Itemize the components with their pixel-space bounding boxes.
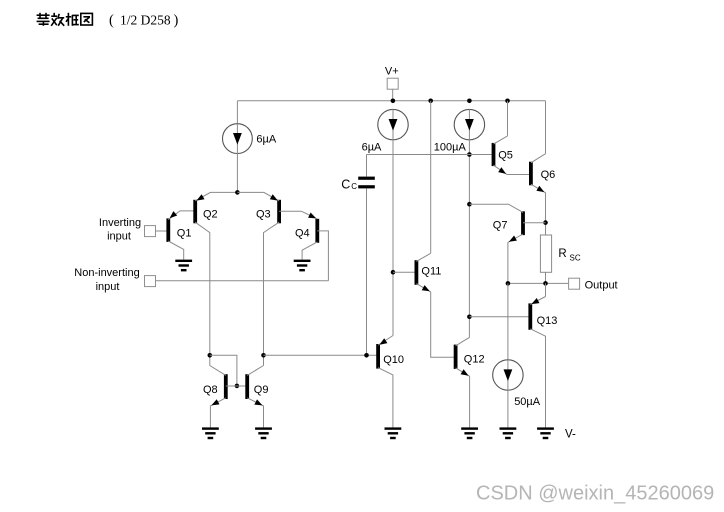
wire rail down to Q5 collector: [507, 101, 509, 136]
label Q11: [421, 266, 441, 278]
svg-text:6µA: 6µA: [362, 142, 382, 154]
junction dot RSC / output: [543, 281, 548, 286]
wire Cc bottom lead: [366, 188, 368, 355]
svg-text:Q4: Q4: [295, 227, 310, 239]
svg-text:Q3: Q3: [256, 208, 271, 220]
junction dot rail/100uA: [467, 99, 472, 104]
wire 50uA to ground: [507, 390, 509, 427]
wire I2 down to Q10 emitter: [392, 140, 394, 336]
junction dot Q12 collector / Q13 base: [467, 315, 472, 320]
transistor Q3: [237, 192, 301, 365]
node non-inverting input terminal: [145, 276, 156, 287]
transistor Q10: [378, 336, 393, 428]
svg-text:CSDN @weixin_45260069: CSDN @weixin_45260069: [476, 483, 714, 505]
junction dot Q7 emitter / output: [506, 281, 511, 286]
title (1/2 D258): [109, 13, 179, 29]
ground under Q13: [537, 427, 554, 439]
node V+ terminal: [387, 78, 398, 101]
ground under Q4: [294, 260, 311, 272]
wire output node: [508, 282, 569, 284]
label 100uA: [434, 142, 467, 154]
transistor Q13: [530, 283, 545, 427]
ground under Q1: [175, 260, 192, 272]
svg-text:Q10: Q10: [383, 354, 404, 366]
svg-text:R: R: [558, 248, 566, 260]
label Q6: [541, 169, 556, 181]
resistor RSC: [540, 235, 551, 272]
svg-text:Output: Output: [585, 279, 618, 291]
svg-text:Inverting: Inverting: [99, 217, 141, 229]
junction dot Q7 collector / 100uA: [467, 202, 472, 207]
junction dot Q7 base node: [543, 220, 548, 225]
wire Q7 emitter to 50uA source: [507, 283, 509, 360]
transistor Q11: [416, 253, 455, 357]
wire Cc top lead: [366, 155, 368, 177]
label Q3: [256, 208, 271, 220]
svg-text:Q5: Q5: [498, 150, 513, 162]
svg-text:SC: SC: [570, 254, 581, 263]
svg-text:Q6: Q6: [541, 169, 556, 181]
transistor Q6: [531, 154, 546, 235]
wire Q8 collector to mirror bases: [210, 355, 237, 386]
label Q9: [254, 384, 269, 396]
node inverting input terminal: [145, 226, 156, 237]
label Q4: [295, 227, 310, 239]
svg-text:C: C: [351, 182, 357, 191]
wire non-inverting input to Q4 base: [156, 280, 329, 282]
junction dot mirror base node: [235, 384, 240, 389]
svg-text:V-: V-: [565, 429, 576, 441]
label 50uA: [514, 396, 541, 408]
svg-text:input: input: [107, 230, 131, 242]
svg-text:Q9: Q9: [254, 384, 269, 396]
wire rail to I1: [236, 101, 238, 124]
label Q12: [464, 353, 485, 365]
svg-text:): ): [174, 13, 179, 29]
svg-text:100µA: 100µA: [434, 142, 467, 154]
svg-text:Q12: Q12: [464, 353, 485, 365]
svg-text:6µA: 6µA: [256, 134, 276, 146]
svg-text:Q7: Q7: [493, 219, 508, 231]
svg-text:1/2 D258: 1/2 D258: [120, 13, 171, 28]
wire I1 to diff pair: [236, 154, 238, 193]
svg-text:50µA: 50µA: [514, 396, 541, 408]
junction dot V+/6uA: [391, 99, 396, 104]
wire RSC bottom to output node: [545, 272, 547, 283]
label Q1: [177, 227, 192, 239]
svg-text:V+: V+: [385, 65, 399, 77]
label Q5: [498, 150, 513, 162]
wire Q9 collector node to Q10 base: [264, 354, 379, 356]
junction dot rail/Q5 collector: [505, 99, 510, 104]
current source I3 100uA: [454, 109, 484, 139]
wire V+ rail (top supply rail): [237, 100, 545, 102]
transistor Q4: [301, 211, 328, 281]
label RSC: [558, 248, 580, 263]
current source I1 6uA: [223, 124, 253, 154]
capacitor Cc: [358, 177, 375, 189]
label Inverting input: [99, 217, 141, 243]
junction dot Q9 collector node: [261, 353, 266, 358]
svg-text:C: C: [341, 177, 350, 191]
wire inverting input to Q1 base: [156, 230, 169, 232]
label 6uA (I2): [362, 142, 382, 154]
svg-text:Q8: Q8: [203, 384, 218, 396]
ground under Q8: [202, 427, 219, 439]
label Q13: [537, 315, 558, 327]
svg-text:Q1: Q1: [177, 227, 192, 239]
transistor Q8: [210, 366, 247, 428]
label Q7: [493, 219, 508, 231]
label Non-inverting input: [74, 267, 139, 293]
ground under Q12: [461, 427, 478, 439]
transistor Q2: [195, 192, 237, 365]
transistor Q1: [168, 211, 195, 260]
label Output: [585, 279, 618, 291]
svg-text:Non-inverting: Non-inverting: [74, 267, 139, 279]
node output terminal: [569, 278, 580, 289]
junction dot diff-pair tail: [235, 190, 240, 195]
wire Q11 base: [393, 271, 416, 273]
ground under Q9: [255, 427, 272, 439]
label V+: [385, 65, 399, 77]
wire rail down to Q11 collector: [430, 101, 432, 254]
label Q10: [383, 354, 404, 366]
ground under Q10: [385, 427, 402, 439]
svg-text:input: input: [96, 281, 120, 293]
label Cc: [341, 177, 357, 191]
transistor Q5: [494, 136, 531, 175]
current source I2 6uA: [378, 109, 408, 139]
wire I3 down to Q12 collector: [468, 140, 470, 338]
svg-text:Q11: Q11: [421, 266, 441, 278]
label 6uA (I1): [256, 134, 276, 146]
wire rail end to Q6 collector: [545, 101, 547, 154]
svg-text:Q2: Q2: [203, 208, 218, 220]
junction dot Q11 base: [391, 270, 396, 275]
junction dot Cc bottom / Q10 base: [364, 353, 369, 358]
label V-: [565, 429, 576, 441]
junction dot rail/Q11 collector: [428, 99, 433, 104]
watermark CSDN: [476, 483, 714, 505]
transistor Q9: [247, 366, 263, 428]
ground under 50uA: [500, 427, 517, 439]
current source I4 50uA: [493, 360, 523, 390]
transistor Q7: [469, 204, 545, 283]
wire Cc node to Q5 base: [367, 154, 494, 156]
label Q8: [203, 384, 218, 396]
title 等效框图 (drawn strokes): [37, 13, 93, 26]
label Q2: [203, 208, 218, 220]
junction dot Q8 collector node: [208, 353, 213, 358]
wire Q13 base: [469, 316, 530, 318]
junction dot Cc line / 100uA: [467, 152, 472, 157]
svg-text:Q13: Q13: [537, 315, 558, 327]
transistor Q12: [456, 337, 470, 427]
svg-text:(: (: [109, 13, 114, 29]
